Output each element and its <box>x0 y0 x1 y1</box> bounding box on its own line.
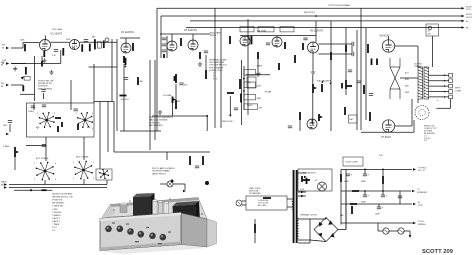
wire: V4A plate up <box>244 35 246 37</box>
switch: out contact box <box>98 42 102 48</box>
svg-text:WIRING: WIRING <box>418 224 426 226</box>
wire: V6 plate to OPT <box>395 45 418 47</box>
switch: chain box 1 <box>244 70 256 76</box>
node: input jack row3 <box>6 84 9 87</box>
resistor: pilot r2 <box>202 156 204 165</box>
resistor: aux r3 <box>240 94 242 103</box>
wire: bridge in bottom <box>310 240 326 242</box>
switch: small wafer box <box>96 169 112 180</box>
speaker: phase check speaker <box>415 106 429 120</box>
photo: front panel <box>100 213 181 251</box>
switch: bass wafer front <box>39 112 54 127</box>
wire: wafer link 1 <box>45 137 47 161</box>
node: tuner input jack <box>6 62 9 65</box>
wire: secondary HV 1 <box>298 218 310 220</box>
photo: knob 2 <box>117 226 124 233</box>
svg-text:V8: V8 <box>315 180 317 182</box>
svg-text:SCOTT 209: SCOTT 209 <box>422 249 454 255</box>
wire: left filter riser <box>340 169 342 224</box>
svg-text:5: 5 <box>54 113 55 115</box>
svg-text:275V: 275V <box>418 205 423 207</box>
wire: tape drop 2 <box>83 179 85 185</box>
wire: secondary bias <box>298 172 306 174</box>
node: B+ out 1 <box>413 168 416 171</box>
wire: chain to riser <box>89 41 117 43</box>
node: bus2 junction <box>315 15 317 17</box>
transformer: output transformer T1 <box>418 67 429 99</box>
wire: V1A grid chain <box>23 42 40 44</box>
wire: x155 riser <box>154 60 156 140</box>
svg-text:1 MEG: 1 MEG <box>3 146 10 148</box>
resistor: aux grid <box>229 36 231 44</box>
tube V2 12AX7A <box>121 43 131 53</box>
wire: C2 drop <box>364 169 366 174</box>
capacitor: driver c <box>348 70 352 72</box>
resistor: V4B plate <box>284 42 286 49</box>
wire: chain feed riser <box>243 66 245 110</box>
node: speaker terminal 4 <box>449 84 453 88</box>
wire: riser x114 <box>113 102 115 153</box>
wire: V3 col2 <box>205 55 207 70</box>
resistor: v5b pot <box>318 114 320 121</box>
ground: V3 <box>198 62 202 66</box>
wire: bottom bus v4 <box>246 74 270 76</box>
node: rail1 j2 <box>382 169 384 171</box>
resistor: aux low <box>239 79 241 89</box>
svg-text:220K: 220K <box>257 86 262 88</box>
resistor: rail3 r2 <box>351 206 353 214</box>
wire: V4B plate up <box>276 36 278 37</box>
svg-text:FIL: FIL <box>466 28 469 30</box>
node: row2 wiper arrow <box>21 76 25 79</box>
svg-text:V6 + V7: V6 + V7 <box>418 170 426 172</box>
svg-text:V4 7247: V4 7247 <box>257 30 267 33</box>
resistor: out col 1 <box>94 39 96 49</box>
resistor: V1B right 2 <box>89 44 91 52</box>
wire: bridge in top <box>310 218 326 220</box>
capacitor: S2 c3 <box>162 50 166 52</box>
node: ph2 jack <box>6 133 9 136</box>
switch: row2 contact <box>24 77 30 80</box>
photo: transformer 2 (right, dark) <box>173 205 197 227</box>
svg-text:BOT 1 REAR: BOT 1 REAR <box>76 156 89 159</box>
node: pilot terminal <box>183 190 186 193</box>
wire: secondary heater 1 <box>298 191 306 193</box>
wire: right riser x112 <box>111 39 113 101</box>
switch: treble wafer front <box>77 112 92 127</box>
wire: legend stub <box>14 189 52 191</box>
resistor: hum pot <box>254 224 256 233</box>
tube V8 bias rectifier <box>318 182 327 191</box>
svg-text:220K: 220K <box>66 39 71 41</box>
svg-text:100K: 100K <box>257 98 262 100</box>
tube V5B <box>307 119 317 129</box>
capacitor: x125 cap <box>124 78 128 80</box>
wire: bowtie to opt <box>400 77 418 79</box>
resistor: bal pot <box>312 84 314 93</box>
wire: S2 column left <box>160 16 162 58</box>
resistor: V3 grid <box>175 74 177 83</box>
wire: V5 down <box>312 53 314 70</box>
wire: v5 riser 1 <box>330 21 332 131</box>
capacitor: V5 in <box>303 38 307 40</box>
resistor: driver r1 <box>330 52 332 60</box>
wire: C3 drop <box>364 191 366 195</box>
wire: V3 plate bus <box>160 33 210 35</box>
svg-text:4: 4 <box>55 163 56 165</box>
node: speaker terminal FB <box>449 95 453 99</box>
wire: V2 top <box>120 37 140 39</box>
transformer: T2 secondary arcs <box>297 218 299 239</box>
wire: recorder-out bus <box>157 7 462 9</box>
photo: panel label marks <box>112 223 171 245</box>
capacitor: V5 couple low <box>352 52 354 56</box>
switch: bias supply box <box>298 169 332 191</box>
resistor: rail3 r <box>350 203 357 205</box>
svg-text:GRN: GRN <box>405 92 410 94</box>
photo: front panel bottom shade <box>100 242 181 251</box>
transformer: feedback winding bowtie <box>390 58 400 99</box>
capacitor: filter C4 <box>381 195 385 197</box>
resistor: filter r left <box>340 174 342 182</box>
wire: V5 out upper <box>319 43 353 45</box>
svg-text:V2 12AX7A: V2 12AX7A <box>121 31 134 34</box>
svg-text:SEE NOTE 3: SEE NOTE 3 <box>304 12 315 14</box>
resistor: row2 load <box>25 67 27 75</box>
node: heater arrow 2 <box>301 195 304 198</box>
node: heater gnd arrow <box>409 235 412 238</box>
resistor: V3 cathode <box>199 52 201 59</box>
svg-text:OUT R: OUT R <box>466 17 472 19</box>
svg-text:SEE NOTE 2: SEE NOTE 2 <box>222 121 235 123</box>
capacitor: link c <box>398 196 402 198</box>
wire: preamp box left edge <box>156 8 158 131</box>
svg-text:2: 2 <box>76 113 77 115</box>
wire: V4 down <box>257 59 259 72</box>
capacitor: tone c1 <box>42 105 46 107</box>
node: speaker terminal 8 <box>449 79 453 83</box>
switch: chain box 2 <box>244 82 256 88</box>
lamp: pilot lamp <box>167 181 173 187</box>
svg-text:AUXILIARY: AUXILIARY <box>210 31 222 34</box>
capacitor: filter C1 <box>346 174 350 176</box>
wire: V4 plate bus <box>240 35 316 37</box>
switch: tone control box <box>27 103 95 137</box>
wire: tape bus 2 <box>9 187 107 189</box>
node: pilot dot <box>171 180 174 183</box>
svg-text:TO PIN 4: TO PIN 4 <box>418 167 427 169</box>
wire: chain left riser <box>240 60 242 125</box>
wire: hum pot col <box>254 219 256 243</box>
capacitor: note cap <box>41 90 45 92</box>
wire: tape bus 1 <box>9 184 107 186</box>
svg-text:1: 1 <box>34 163 35 165</box>
svg-text:PH: PH <box>2 45 5 47</box>
photo: deck left wedge <box>102 205 116 220</box>
svg-text:CONN: CONN <box>455 90 461 92</box>
wire: bridge up to rail <box>345 169 347 229</box>
node: tape out jack <box>4 183 7 186</box>
node: input jack row2 <box>6 62 9 65</box>
resistor: S2 r1 <box>163 54 165 58</box>
rectifier: selenium bridge <box>314 218 338 242</box>
wire: V3 col <box>175 84 177 100</box>
wire: ph2 stub <box>9 124 11 132</box>
svg-text:6.3V: 6.3V <box>300 189 305 191</box>
svg-text:PH: PH <box>1 83 4 85</box>
wire: bridge out up <box>345 192 347 230</box>
node: tap junction 8 <box>444 80 446 82</box>
wire: heater drop link <box>377 223 379 231</box>
capacitor: pilot c <box>195 166 199 168</box>
transformer: power transformer T2 primary arcs <box>292 199 294 209</box>
wire: ac lead 2 <box>242 204 246 206</box>
wire: riser x357 <box>356 30 358 130</box>
wire: B+ rail 2 <box>341 190 411 192</box>
resistor: x125 r <box>125 58 127 65</box>
wire: output tap 16 <box>429 74 449 76</box>
wire: C4 drop <box>382 191 384 195</box>
node: bal j2 <box>330 83 332 85</box>
wire: fb left run <box>436 107 450 109</box>
wire: V6 plate top <box>388 36 390 40</box>
capacitor: S2 c2 <box>162 44 166 46</box>
svg-text:V1 12AX7: V1 12AX7 <box>51 32 63 36</box>
resistor: link r <box>382 176 384 184</box>
resistor: V5 grid <box>302 43 304 50</box>
wire: preamp box bottom <box>120 130 161 132</box>
svg-text:5: 5 <box>92 113 93 115</box>
resistor: row3 load <box>22 85 24 91</box>
photo: knob 3 <box>127 228 134 235</box>
svg-text:LOUD COMP: LOUD COMP <box>346 162 359 164</box>
wire: right riser x117 upper <box>116 39 118 131</box>
wire: right wire y67 <box>89 66 117 68</box>
wire: secondary HV 2 <box>298 239 310 241</box>
wire: bridge left lead <box>309 219 311 243</box>
ground: V1A cathode <box>42 58 46 62</box>
resistor: V3 load <box>205 70 207 79</box>
tube V3B 12AX7A <box>188 40 198 50</box>
wire: V3 plate drop <box>192 34 194 40</box>
photo: rear edge shadow <box>110 198 199 208</box>
svg-text:SPKR: SPKR <box>455 88 461 90</box>
wire: bias box drop <box>431 36 433 67</box>
svg-text:1: 1 <box>73 162 74 164</box>
svg-text:V3 12AX7A: V3 12AX7A <box>184 29 197 32</box>
wire: primary 2 <box>287 206 292 208</box>
node: bus3 terminal <box>462 20 465 23</box>
ground: volume <box>158 110 162 114</box>
lamp: small circle part <box>105 38 109 42</box>
wire: drop into box 2 <box>70 80 72 110</box>
resistor: v5b r <box>299 112 301 120</box>
wire: row2 lead <box>11 63 26 65</box>
wire: below box line <box>26 145 46 147</box>
wire: vol down <box>172 103 174 116</box>
wire: pilot lead l <box>160 183 167 185</box>
svg-text:100K: 100K <box>20 40 25 42</box>
svg-text:YEL LEAD: YEL LEAD <box>52 28 63 31</box>
svg-text:PH JAK: PH JAK <box>265 91 272 94</box>
wire: r42 wire <box>41 56 43 61</box>
svg-text:2 MEG: 2 MEG <box>247 105 253 107</box>
capacitor: below box cap <box>42 145 46 147</box>
capacitor: tone c2 <box>74 109 78 111</box>
switch: treble wafer rear <box>74 161 92 179</box>
capacitor: V3 couple <box>204 51 208 53</box>
svg-text:SCR FILT: SCR FILT <box>121 99 130 101</box>
node: B+ out 3 <box>413 203 416 206</box>
node: tap junction 4 <box>444 85 446 87</box>
capacitor: hum c <box>288 126 292 128</box>
wire: S2 column right <box>166 36 168 58</box>
switch: small wafer <box>99 169 109 179</box>
wire: V5 out lower <box>319 53 353 55</box>
svg-text:THERMAL CUTOUT: THERMAL CUTOUT <box>300 214 318 217</box>
resistor: x138 r <box>137 77 139 85</box>
ground: input gnd <box>13 67 17 71</box>
switch: rcdr net box 3 <box>280 27 294 32</box>
svg-text:INPUT: INPUT <box>210 35 217 37</box>
lamp: heater filament 2 <box>398 228 404 234</box>
resistor: bias r2 <box>306 178 308 184</box>
capacitor: aux couple <box>249 36 251 40</box>
switch: chain box 3 <box>244 94 256 100</box>
tube V4A 7247 <box>240 36 250 46</box>
node: speaker terminal 16 <box>449 74 453 78</box>
wire: V7 opt drop <box>411 99 413 126</box>
wire: riser x34 <box>34 56 36 101</box>
resistor: aux r2 <box>227 92 234 94</box>
photo: deck detail screws <box>113 198 203 215</box>
resistor: V6 screen 1 <box>371 59 373 66</box>
ground: V4 <box>256 72 260 76</box>
resistor: V6 grid <box>367 44 369 53</box>
wire: output tap FB <box>429 96 449 98</box>
resistor: pilot r1 <box>189 156 191 165</box>
resistor: top r42 <box>41 61 43 67</box>
wire: heater sub left <box>378 230 383 232</box>
wire: v5 riser 2 <box>345 28 347 96</box>
resistor: bal r2 <box>321 84 323 92</box>
node: bus2 terminal <box>462 15 465 18</box>
capacitor: aux c2 <box>234 108 238 110</box>
node: x125 dot <box>125 66 127 68</box>
photo: right side light sliver <box>207 219 217 247</box>
photo: knob 6 <box>160 234 167 241</box>
resistor: V1A cathode <box>43 51 45 57</box>
wire: rail1-rail2 link <box>382 169 384 191</box>
tube V1A 12AX7 <box>40 40 51 51</box>
capacitor: filter C5 <box>377 207 381 209</box>
resistor: V2 plate <box>132 43 134 51</box>
resistor: V1B right 1 <box>81 44 83 52</box>
wire: power box bottom <box>361 131 414 133</box>
wire: riser x108 <box>107 102 109 153</box>
svg-text:LOUD: LOUD <box>175 101 181 103</box>
node: 1meg wiper <box>16 151 19 154</box>
wire: pilot top <box>114 151 210 153</box>
wire: v5b col <box>299 120 301 131</box>
wire: bridge in top drop <box>325 218 327 220</box>
svg-text:6: 6 <box>93 178 94 180</box>
svg-text:VOLUME: VOLUME <box>163 95 172 97</box>
wire: riser x100 <box>99 102 101 170</box>
switch: aux net box <box>247 77 256 88</box>
resistor: volume pot <box>172 97 174 104</box>
capacitor: S2 c1 <box>162 38 166 40</box>
photo: rectifier tube cylinders <box>153 200 169 216</box>
node: rail2 j1 <box>364 190 366 192</box>
capacitor: V6 cap <box>369 94 373 96</box>
resistor: mid r2 <box>346 85 352 87</box>
photo: front panel top bevel <box>100 213 181 222</box>
photo: knob 4 <box>138 231 145 238</box>
wire: wafer link 2 <box>83 137 85 160</box>
wire: OPT bot drop <box>417 99 419 103</box>
resistor: V1 mid <box>62 48 64 56</box>
capacitor: V5 couple up <box>352 42 354 46</box>
node: rail1 j1 <box>364 169 366 171</box>
node: aux j <box>229 114 231 116</box>
wire: tape bus right <box>106 180 108 185</box>
node: chain j1 <box>243 78 245 80</box>
wire: pot to box <box>14 157 16 170</box>
ground: V5 <box>311 70 315 74</box>
wire: V1B out chain <box>80 41 89 43</box>
svg-text:TO FIL: TO FIL <box>418 221 425 223</box>
wire: V3 plate drop2 <box>171 34 173 41</box>
svg-text:B.A. BALANCE: B.A. BALANCE <box>317 80 332 83</box>
resistor: mid r1 <box>341 83 343 89</box>
lamp: heater filament 1 <box>383 228 389 234</box>
wire: aux box right <box>247 19 249 115</box>
resistor: V2 cathode <box>123 56 125 63</box>
wire: mid h line <box>152 115 207 117</box>
wire: bus 3 <box>190 20 462 22</box>
node: bal wiper <box>314 87 317 90</box>
capacitor: left edge c <box>8 121 12 123</box>
node: pilot dot2 <box>205 181 209 185</box>
svg-text:2: 2 <box>37 113 38 115</box>
resistor: top r174 <box>174 76 176 81</box>
wire: V2 down <box>123 64 125 131</box>
wire: output tap 4 <box>429 85 449 87</box>
resistor: bias r <box>303 179 310 181</box>
wire: heater rail left <box>341 222 414 224</box>
capacitor: grid cap <box>179 83 183 85</box>
switch: rcdr net box 2 <box>258 27 274 32</box>
svg-text:2 MEG: 2 MEG <box>257 66 263 68</box>
wire: x150 riser <box>149 60 151 150</box>
photo: knob 5 <box>149 233 156 240</box>
capacitor: mid c1 <box>357 81 361 83</box>
wire: note cap drop <box>43 93 45 99</box>
wire: bus 4 <box>186 27 462 29</box>
resistor: V6 r2 <box>363 85 365 94</box>
resistor: driver r2 <box>345 45 347 52</box>
wire: rail2-3 link <box>399 191 401 204</box>
wire: drop into box 1 <box>33 103 35 110</box>
node: volume wiper <box>173 98 176 101</box>
resistor: V4 cathode <box>257 52 259 59</box>
node: bal j1 <box>322 81 324 83</box>
node: v5b pot wiper <box>320 116 323 119</box>
wire: power box right stub <box>413 120 415 132</box>
svg-text:TO: TO <box>417 189 420 191</box>
svg-text:V5 12AX7A: V5 12AX7A <box>310 30 323 33</box>
